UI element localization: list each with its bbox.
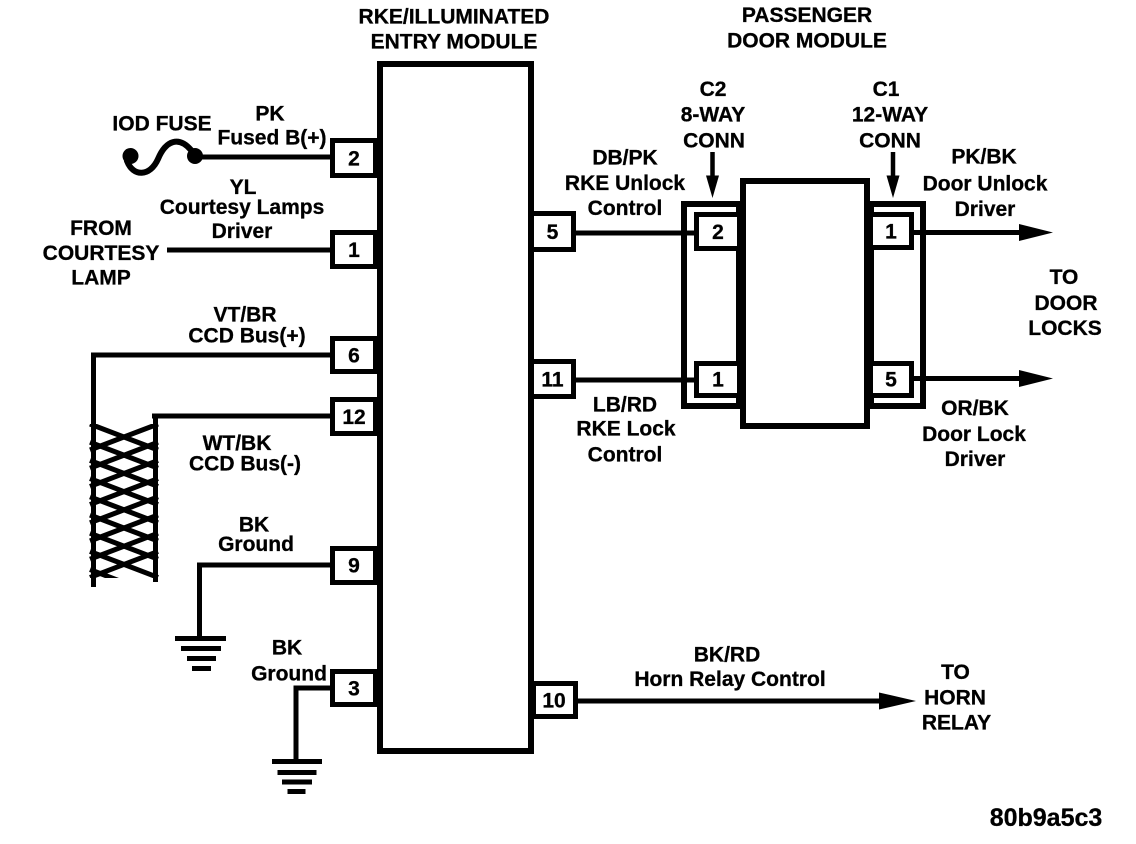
wire fused B(+) to pin 2 bbox=[194, 155, 334, 160]
svg-text:5: 5 bbox=[885, 369, 897, 392]
label BK/RD Horn Relay Control bbox=[634, 644, 825, 692]
label WT/BK CCD Bus(-) bbox=[189, 432, 301, 476]
pin 6 bbox=[333, 339, 376, 372]
wire door unlock driver with arrow bbox=[911, 224, 1053, 241]
wire pin 3 to ground bbox=[294, 686, 334, 762]
wire from courtesy lamp to pin 1 bbox=[167, 248, 334, 253]
pin C1-1 bbox=[871, 215, 912, 248]
svg-text:Fused B(+): Fused B(+) bbox=[217, 127, 326, 150]
svg-text:RKE/ILLUMINATED: RKE/ILLUMINATED bbox=[359, 6, 550, 29]
pin 10 bbox=[534, 684, 576, 717]
svg-text:LOCKS: LOCKS bbox=[1028, 317, 1102, 340]
pin 1 bbox=[333, 233, 376, 267]
svg-text:Ground: Ground bbox=[251, 663, 327, 686]
pin C2-2 bbox=[697, 215, 740, 249]
svg-text:CCD Bus(+): CCD Bus(+) bbox=[188, 325, 305, 348]
svg-text:80b9a5c3: 80b9a5c3 bbox=[990, 804, 1103, 832]
svg-text:DB/PK: DB/PK bbox=[592, 147, 657, 170]
node TO HORN RELAY bbox=[922, 661, 991, 735]
pin 12 bbox=[333, 400, 376, 434]
label C2 8-WAY CONN bbox=[681, 78, 746, 153]
svg-text:3: 3 bbox=[348, 678, 360, 701]
pin 11 bbox=[532, 362, 574, 397]
svg-text:PASSENGER: PASSENGER bbox=[742, 4, 872, 27]
svg-text:HORN: HORN bbox=[924, 687, 986, 710]
label C1 12-WAY CONN bbox=[852, 78, 928, 153]
svg-text:5: 5 bbox=[547, 221, 559, 244]
arrow to C1 bbox=[887, 152, 900, 198]
svg-text:Door Unlock: Door Unlock bbox=[923, 173, 1048, 196]
svg-text:Driver: Driver bbox=[955, 198, 1016, 221]
svg-text:10: 10 bbox=[542, 690, 565, 713]
module U2 PASSENGER DOOR MODULE label bbox=[727, 4, 887, 53]
label VT/BR CCD Bus(+) bbox=[188, 304, 305, 348]
svg-text:2: 2 bbox=[712, 221, 724, 244]
connector C1 outline bbox=[871, 204, 923, 406]
svg-text:OR/BK: OR/BK bbox=[941, 397, 1009, 420]
label YL Courtesy Lamps Driver bbox=[160, 176, 325, 243]
svg-text:Horn Relay Control: Horn Relay Control bbox=[634, 668, 825, 691]
pin 5 bbox=[532, 214, 574, 250]
svg-text:COURTESY: COURTESY bbox=[43, 242, 160, 265]
pin 3 bbox=[333, 672, 376, 705]
svg-text:Courtesy Lamps: Courtesy Lamps bbox=[160, 196, 325, 219]
svg-text:TO: TO bbox=[941, 661, 970, 684]
pin 9 bbox=[333, 549, 376, 583]
svg-text:PK/BK: PK/BK bbox=[951, 146, 1016, 169]
svg-text:TO: TO bbox=[1050, 266, 1079, 289]
svg-text:1: 1 bbox=[885, 221, 897, 244]
label PK/BK Door Unlock Driver bbox=[923, 146, 1048, 222]
svg-text:Door Lock: Door Lock bbox=[922, 423, 1026, 446]
module U1 RKE/ILLUMINATED ENTRY MODULE label bbox=[359, 6, 550, 54]
svg-text:9: 9 bbox=[348, 555, 360, 578]
fuse F1 IOD FUSE bbox=[123, 142, 204, 173]
svg-text:6: 6 bbox=[348, 345, 360, 368]
svg-text:1: 1 bbox=[712, 369, 724, 392]
label BK Ground (pin 3) bbox=[251, 637, 327, 686]
wire pin 5 to C2 pin 2 bbox=[573, 231, 700, 236]
label OR/BK Door Lock Driver bbox=[922, 397, 1026, 471]
label BK Ground (pin 9) bbox=[218, 514, 294, 557]
pin C1-5 bbox=[871, 364, 912, 396]
svg-text:C2: C2 bbox=[700, 78, 727, 101]
module U2 body bbox=[743, 181, 867, 426]
svg-text:ENTRY MODULE: ENTRY MODULE bbox=[371, 31, 538, 54]
svg-text:8-WAY: 8-WAY bbox=[681, 104, 746, 127]
pin C2-1 bbox=[697, 364, 740, 396]
module U1 body bbox=[380, 64, 531, 751]
svg-text:Driver: Driver bbox=[212, 220, 273, 243]
ground G1 bbox=[175, 639, 226, 669]
ground G2 bbox=[272, 762, 322, 792]
svg-text:LAMP: LAMP bbox=[71, 267, 131, 290]
pin 2 bbox=[333, 141, 376, 176]
svg-text:PK: PK bbox=[255, 103, 284, 126]
svg-text:12: 12 bbox=[342, 406, 365, 429]
svg-text:BK: BK bbox=[272, 637, 302, 660]
label LB/RD RKE Lock Control bbox=[576, 394, 676, 467]
svg-text:11: 11 bbox=[541, 369, 564, 392]
node TO DOOR LOCKS bbox=[1028, 266, 1102, 340]
svg-text:LB/RD: LB/RD bbox=[593, 394, 657, 417]
svg-text:IOD FUSE: IOD FUSE bbox=[112, 113, 211, 136]
wire door lock driver with arrow bbox=[911, 370, 1053, 387]
svg-text:FROM: FROM bbox=[70, 217, 132, 240]
svg-text:2: 2 bbox=[348, 148, 360, 171]
svg-text:12-WAY: 12-WAY bbox=[852, 104, 928, 127]
wire CCD Bus(-) to pin 12 bbox=[152, 414, 334, 583]
label PK Fused B(+) bbox=[217, 103, 326, 150]
label DB/PK RKE Unlock Control bbox=[565, 147, 686, 221]
svg-text:DOOR: DOOR bbox=[1035, 292, 1098, 315]
wire horn relay control with arrow bbox=[574, 693, 916, 710]
svg-text:Control: Control bbox=[588, 197, 663, 220]
arrow to C2 bbox=[706, 152, 719, 198]
svg-text:RKE Lock: RKE Lock bbox=[576, 418, 676, 441]
svg-text:1: 1 bbox=[348, 239, 360, 262]
twisted pair shield hatch bbox=[90, 424, 158, 596]
svg-text:CONN: CONN bbox=[859, 130, 921, 153]
svg-text:BK/RD: BK/RD bbox=[694, 644, 761, 667]
svg-text:RELAY: RELAY bbox=[922, 712, 991, 735]
svg-text:RKE Unlock: RKE Unlock bbox=[565, 172, 686, 195]
connector C2 outline bbox=[684, 204, 739, 406]
svg-text:VT/BR: VT/BR bbox=[214, 304, 277, 327]
svg-text:Driver: Driver bbox=[945, 448, 1006, 471]
wire pin 11 to C2 pin 1 bbox=[573, 378, 700, 383]
svg-text:CCD Bus(-): CCD Bus(-) bbox=[189, 453, 301, 476]
svg-text:Ground: Ground bbox=[218, 533, 294, 556]
node FROM COURTESY LAMP bbox=[43, 217, 160, 290]
svg-text:C1: C1 bbox=[873, 78, 900, 101]
wire CCD Bus(+) to pin 6 bbox=[91, 353, 334, 588]
wire pin 9 to ground bbox=[197, 563, 334, 639]
svg-text:DOOR MODULE: DOOR MODULE bbox=[727, 30, 887, 53]
svg-text:Control: Control bbox=[588, 444, 663, 467]
svg-text:CONN: CONN bbox=[683, 130, 745, 153]
